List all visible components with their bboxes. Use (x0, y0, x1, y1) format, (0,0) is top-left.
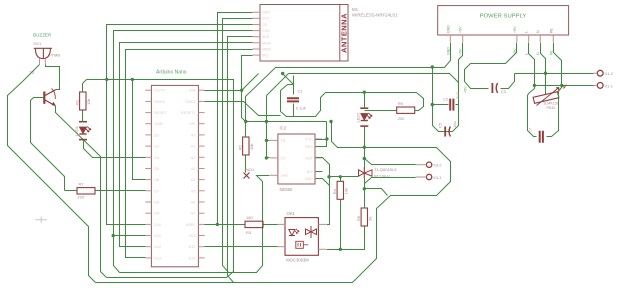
wire Arduino VIN to +V rail (205, 74, 259, 91)
svg-text:AREF: AREF (186, 223, 197, 227)
svg-text:D3: D3 (154, 145, 159, 149)
capacitor C7 (540, 131, 543, 143)
wire rail to TR (267, 140, 270, 142)
wire LED2 to node (364, 127, 366, 148)
wire OK1 MT1 to R6 (327, 227, 365, 250)
wire IC2 VCC to rail (316, 139, 327, 141)
junction CE/+5V rail (105, 78, 108, 81)
svg-text:+5V: +5V (189, 122, 196, 126)
Arduino pin 3V3 (198, 235, 204, 237)
svg-text:SG1: SG1 (33, 41, 42, 46)
Arduino pin D1/TX (145, 89, 151, 91)
Arduino pin A7 (198, 212, 204, 214)
svg-text:C1: C1 (298, 89, 304, 94)
svg-text:GND: GND (154, 122, 163, 126)
OK1 internal LED (289, 230, 295, 236)
svg-text:220: 220 (78, 195, 85, 200)
power supply pin GND (449, 35, 451, 42)
Arduino pin +5V (198, 123, 204, 125)
connector X1-2 (597, 70, 603, 76)
module pin SCK (253, 36, 261, 38)
svg-text:10k: 10k (86, 99, 91, 105)
wire NRF IRQ down (242, 56, 253, 91)
svg-text:MOSI: MOSI (262, 41, 271, 45)
wire R5 right curl (415, 93, 424, 111)
svg-text:+5V: +5V (513, 26, 517, 33)
OK1 pin MT2 (318, 223, 326, 225)
OK1 pin MT1 (318, 248, 326, 250)
wire T2 emitter to bottom bus (56, 106, 107, 278)
wire R5 left (365, 110, 397, 112)
power supply pin N (539, 35, 541, 42)
module pin GND (253, 11, 261, 13)
wire L into loop (529, 86, 535, 94)
wire T2 base to R7 (31, 98, 65, 191)
wire R2 to PAD1 (245, 156, 247, 173)
svg-text:D9: D9 (154, 212, 159, 216)
power supply pin L (528, 35, 530, 42)
IC2 pin CV (270, 157, 278, 159)
Arduino pin A5 (198, 190, 204, 192)
Arduino pin D11 (145, 235, 151, 237)
wire IC2 RES rail vertical (316, 122, 327, 147)
OK1 internal detector (296, 241, 304, 248)
IC2 pin GND (315, 178, 322, 180)
wire LED2 rail horizontal (326, 92, 417, 94)
capacitor C5 (444, 127, 446, 137)
wire R6 to node C (364, 189, 366, 209)
LED D2 (360, 107, 368, 109)
IC2 pin VCC (315, 138, 322, 140)
junction (131, 78, 134, 81)
svg-text:CV: CV (280, 156, 286, 160)
svg-text:VIN: VIN (189, 89, 195, 93)
wire VIN node down to R2 node (242, 91, 246, 122)
wire R2 node rail (246, 121, 327, 123)
junction (240, 89, 243, 92)
capacitor C1 plates (287, 98, 299, 101)
svg-text:P632: P632 (547, 106, 556, 110)
wire line N to X1-1 (535, 85, 594, 87)
wire bus1 to IC2 THR (120, 176, 270, 273)
svg-text:M1: M1 (352, 7, 359, 12)
svg-text:D7: D7 (154, 189, 159, 193)
svg-text:PE: PE (549, 28, 553, 33)
svg-text:A3: A3 (191, 167, 196, 171)
junction (560, 84, 563, 87)
wire X3-1 to node C (365, 178, 416, 189)
svg-text:OUT: OUT (305, 156, 314, 160)
svg-text:A6: A6 (191, 201, 196, 205)
wire buzzer left pin to bottom bus (8, 65, 96, 283)
svg-text:X3-1: X3-1 (433, 175, 442, 180)
wire NRF SCK to bus3 (228, 37, 253, 283)
wire NRF CSN to Arduino D11 (114, 31, 253, 236)
svg-text:A0: A0 (191, 133, 196, 137)
svg-text:GND: GND (305, 177, 314, 181)
svg-text:R4: R4 (332, 188, 337, 194)
wire line L to X1-2 (515, 73, 594, 75)
svg-text:D2: D2 (154, 133, 159, 137)
wire NRF CE to Arduino D10 (107, 25, 253, 225)
wire C1 top (293, 76, 295, 95)
svg-text:A7: A7 (191, 212, 196, 216)
svg-text:220: 220 (398, 116, 405, 121)
svg-text:CSN: CSN (262, 29, 270, 33)
origin cross (35, 217, 47, 224)
junction node C (363, 187, 366, 190)
wire loop left side (528, 94, 537, 137)
svg-text:VCC: VCC (305, 138, 313, 142)
svg-text:D4: D4 (154, 156, 159, 160)
svg-text:RESET1: RESET1 (181, 111, 195, 115)
power supply pin +5V (462, 35, 464, 42)
svg-text:D13: D13 (154, 256, 161, 260)
wire R7 to Arduino D9 (96, 190, 146, 192)
junction R2 node (244, 120, 247, 123)
wire LED2 top stub (364, 93, 366, 109)
svg-text:A5: A5 (191, 189, 196, 193)
wire IC2 DIS stub (316, 171, 323, 173)
OK1 internal triac (306, 226, 317, 238)
svg-text:CE: CE (262, 23, 268, 27)
Arduino Nano U1 box (151, 85, 198, 266)
junction (431, 65, 434, 68)
svg-text:DIS: DIS (307, 170, 314, 174)
wire triac gate to OK1 (330, 176, 359, 178)
svg-text:D13: D13 (189, 256, 196, 260)
Arduino pin D10 (145, 223, 151, 225)
wire h2 left diagonal (267, 74, 289, 96)
wire X3-2 to node B (365, 159, 416, 165)
wire gate to R4 (340, 177, 342, 182)
svg-text:LED1: LED1 (74, 125, 79, 136)
wire C1 loop (281, 85, 326, 117)
junction (327, 175, 330, 178)
varistor R8 (533, 92, 559, 104)
wire N into loop (545, 74, 547, 95)
junction (339, 175, 342, 178)
svg-text:A1: A1 (191, 145, 196, 149)
module pin IRQ (253, 54, 261, 56)
svg-text:D11: D11 (154, 234, 161, 238)
Arduino pin A0 (198, 134, 204, 136)
junction (265, 156, 268, 159)
wire LED1 to Arduino D6 (84, 140, 146, 158)
svg-text:0.1uF: 0.1uF (296, 106, 307, 111)
wire C4 to X1-2 line (501, 74, 515, 89)
LED D1 (79, 121, 87, 123)
module pin VCC (253, 17, 261, 19)
svg-text:D12: D12 (189, 245, 196, 249)
junction (339, 248, 342, 251)
resistor R5 (397, 107, 415, 113)
svg-text:R1: R1 (75, 99, 80, 105)
wire Arduino A5 to R3 (205, 224, 246, 226)
svg-text:A4: A4 (191, 178, 196, 182)
junction (431, 103, 434, 106)
wire R2 top (245, 122, 247, 138)
svg-text:R2: R2 (238, 144, 243, 150)
svg-text:3V3: 3V3 (189, 234, 196, 238)
capacitor C2 (450, 99, 453, 111)
Arduino pin D12 (145, 246, 151, 248)
svg-text:10u: 10u (452, 121, 457, 128)
wire rail branch to node A (332, 122, 365, 148)
junction (329, 120, 332, 123)
svg-text:NE555: NE555 (280, 187, 293, 192)
junction (325, 137, 328, 140)
power supply box (438, 6, 569, 35)
svg-text:LED2: LED2 (355, 112, 360, 123)
wire C2 left (433, 104, 449, 106)
wire R4 down to OK1 MT1 line (340, 200, 342, 250)
svg-text:R6: R6 (356, 215, 361, 221)
svg-text:R3: R3 (246, 230, 252, 235)
junction (265, 120, 268, 123)
svg-text:T1-Q6015L5: T1-Q6015L5 (374, 167, 397, 172)
wire Arduino A1 to OK1 cathode (205, 246, 278, 248)
resistor R3 (245, 221, 263, 227)
svg-text:+5V: +5V (459, 26, 463, 33)
svg-text:GND: GND (446, 47, 450, 55)
wire IC2 OUT to OK1 MT2 side (316, 158, 330, 225)
resistor R7 (77, 188, 95, 194)
svg-text:D0/RX: D0/RX (154, 100, 165, 104)
svg-text:D5: D5 (154, 167, 159, 171)
svg-text:Arduino Nano: Arduino Nano (156, 70, 187, 76)
svg-text:BUZZER: BUZZER (33, 33, 52, 38)
Arduino pin GND (145, 123, 151, 125)
svg-text:PAD1: PAD1 (245, 168, 255, 172)
OK1 pin cathode (277, 246, 285, 248)
wire rail branch to Arduino D8 (133, 80, 146, 180)
IC2 pin TR (270, 139, 278, 141)
Arduino pin D12 (198, 246, 204, 248)
junction (281, 72, 284, 75)
op-amp/timer IC2 box (278, 134, 315, 184)
svg-text:GND1: GND1 (185, 100, 195, 104)
wire rail to CV (267, 141, 270, 158)
connector X3-1 (426, 174, 431, 179)
wire R1 top (83, 80, 87, 93)
svg-text:MOC3063M: MOC3063M (286, 258, 309, 263)
IC2 pin RES (315, 146, 322, 148)
wire PSU to C4 (465, 43, 517, 89)
svg-text:C5: C5 (438, 122, 443, 128)
wire NRF VCC to bus1 (223, 19, 253, 273)
Arduino pin D8 (145, 201, 151, 203)
wire +5V rail across top of Arduino to bus2 (87, 80, 234, 278)
Arduino pin D3 (145, 145, 151, 147)
module pin MOSI (253, 42, 261, 44)
Arduino pin RESET (145, 112, 151, 114)
svg-text:IC2: IC2 (280, 126, 287, 131)
svg-text:D10: D10 (154, 223, 161, 227)
svg-text:R7: R7 (79, 182, 85, 187)
Arduino pin D13 (198, 257, 204, 259)
optocoupler OK1 box (285, 218, 318, 256)
svg-text:D12: D12 (154, 245, 161, 249)
capacitor C4 (491, 83, 493, 93)
svg-text:SCK: SCK (262, 35, 270, 39)
connector X3-2 (426, 162, 431, 167)
Arduino pin GND1 (198, 100, 204, 102)
svg-text:C7: C7 (528, 127, 533, 133)
power supply pin PE (552, 35, 554, 42)
module pin MISO (253, 48, 261, 50)
Arduino pin A3 (198, 168, 204, 170)
module pin CE (253, 24, 261, 26)
wire bus3 mains loop to X3 node (96, 148, 451, 283)
svg-text:POWER SUPPLY: POWER SUPPLY (480, 14, 527, 20)
svg-text:THR: THR (280, 174, 288, 178)
varistor arrows (560, 85, 567, 90)
wire Arduino GND1 to C1 loop (205, 102, 281, 116)
junction (544, 72, 547, 75)
wire PSU PE down (554, 43, 562, 86)
wire bus2 (107, 277, 227, 279)
wire rail vertical (266, 96, 268, 141)
wire C2 right (456, 104, 459, 106)
wire h2 long rail (289, 74, 459, 83)
wire NRF MOSI to Arduino D12 (120, 43, 253, 247)
Arduino pin D7 (145, 190, 151, 192)
power supply pin +5V (516, 35, 518, 42)
junction (533, 84, 536, 87)
svg-text:X1-2: X1-2 (605, 71, 614, 76)
wire triac MT1 down (364, 179, 366, 189)
wire PSU N down (541, 43, 546, 74)
Arduino pin D4 (145, 156, 151, 158)
IC2 pin DIS (315, 171, 322, 173)
resistor R6 (361, 208, 367, 226)
Arduino pin A1 (198, 145, 204, 147)
svg-text:D1/TX: D1/TX (154, 89, 165, 93)
wire C1 bottom (293, 104, 295, 117)
wire R3 to OK1 anode (264, 224, 278, 226)
IC2 pin THR (270, 174, 278, 176)
svg-text:C2: C2 (443, 97, 449, 102)
svg-text:X1-1: X1-1 (605, 83, 614, 88)
wire h1 +5V long rail to PSU (246, 43, 451, 122)
IC2 pin OUT (315, 157, 322, 159)
svg-text:X3-2: X3-2 (433, 163, 442, 168)
wire node A down (364, 148, 366, 159)
Arduino pin D5 (145, 168, 151, 170)
Arduino pin RESET1 (198, 112, 204, 114)
junction node A (363, 146, 366, 149)
svg-text:N: N (536, 30, 540, 33)
wire CSN vertical to bus1 (114, 236, 120, 273)
svg-text:R5: R5 (398, 101, 404, 106)
svg-text:39: 39 (368, 216, 373, 221)
svg-text:RES: RES (305, 145, 313, 149)
wire PSU +5V down right ladder side (453, 43, 463, 132)
svg-text:A2: A2 (191, 156, 196, 160)
wire IC2 GND to OUT vertical (316, 179, 330, 186)
svg-text:N: N (536, 52, 540, 55)
svg-text:10k: 10k (344, 188, 349, 194)
svg-text:+5V: +5V (464, 86, 468, 93)
junction node B (363, 157, 366, 160)
svg-text:OK1: OK1 (287, 211, 296, 216)
svg-text:L: L (525, 31, 529, 33)
connector X1-1 (597, 83, 603, 89)
resistor R1 (80, 92, 86, 110)
wire T2 base chain to R7 (65, 190, 78, 192)
Arduino pin D9 (145, 212, 151, 214)
resistor R4 (337, 181, 343, 199)
OK1 pin anode (277, 223, 285, 225)
wire node C to mains loop (365, 189, 388, 196)
triac T1 (359, 170, 373, 176)
Arduino pin D0/RX (145, 100, 151, 102)
svg-text:VCC: VCC (262, 17, 270, 21)
wire PSU L down (529, 43, 535, 86)
svg-text:D6: D6 (154, 178, 159, 182)
wire rail down to TR (266, 122, 268, 141)
junction (265, 139, 268, 142)
wire C1 riser to h2 (284, 75, 294, 85)
Arduino pin VIN (198, 89, 204, 91)
junction (363, 91, 366, 94)
Arduino pin D2 (145, 134, 151, 136)
wire R1 to LED1 (82, 111, 84, 123)
resistor R2 (243, 137, 249, 155)
svg-text:TR: TR (280, 139, 285, 143)
svg-text:PE: PE (549, 50, 553, 55)
wire buzzer to T2 collector (46, 65, 60, 90)
svg-text:C3: C3 (501, 89, 507, 94)
svg-text:ANTENNA: ANTENNA (340, 13, 349, 53)
wire NRF MISO to Arduino D13 (126, 50, 253, 258)
wire loop right side (547, 86, 562, 137)
module pin CSN (253, 30, 261, 32)
Arduino pin D13 (145, 257, 151, 259)
Arduino pin AREF (198, 223, 204, 225)
Arduino pin D6 (145, 179, 151, 181)
svg-text:D8: D8 (154, 201, 159, 205)
svg-text:10k: 10k (249, 144, 254, 150)
svg-text:IRQ: IRQ (262, 54, 269, 58)
junction (112, 234, 115, 237)
junction (216, 223, 219, 226)
svg-text:GND: GND (446, 25, 450, 33)
wireless module M1 box (260, 5, 348, 62)
svg-text:WIRELESS-NRF24L01: WIRELESS-NRF24L01 (352, 13, 398, 18)
Arduino pin A2 (198, 156, 204, 158)
wire to triac MT2 (364, 159, 366, 169)
Arduino pin A6 (198, 201, 204, 203)
wire ladder left side and bottom (433, 68, 453, 132)
svg-text:GND: GND (262, 11, 270, 15)
svg-text:2u2: 2u2 (455, 92, 460, 99)
svg-text:S14K150: S14K150 (544, 102, 560, 106)
svg-text:MISO: MISO (262, 47, 271, 51)
wire NRF GND to Arduino A5 (218, 13, 253, 225)
svg-text:180: 180 (246, 215, 253, 220)
Arduino pin A4 (198, 179, 204, 181)
svg-text:RESET: RESET (154, 111, 167, 115)
